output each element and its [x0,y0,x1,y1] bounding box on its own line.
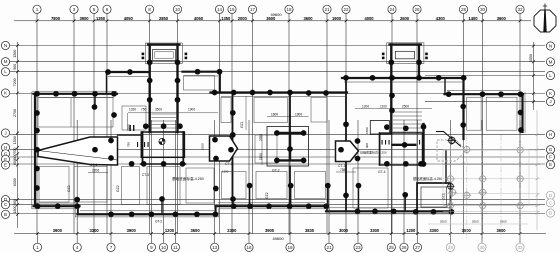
building foundation walls [34,45,524,215]
svg-text:GT-2: GT-2 [155,220,162,224]
svg-text:GT-2: GT-2 [272,169,280,173]
svg-text:28: 28 [448,245,454,250]
svg-text:F: F [549,155,552,160]
svg-text:8: 8 [148,7,151,12]
svg-text:49600: 49600 [270,12,282,17]
svg-text:33: 33 [517,245,523,250]
svg-text:6300: 6300 [13,178,17,186]
svg-text:3300: 3300 [90,228,100,233]
svg-text:H: H [4,145,7,150]
svg-text:J: J [549,99,551,104]
svg-text:24: 24 [389,7,395,12]
svg-text:3300: 3300 [370,228,380,233]
vertical axis grid lines [37,14,520,243]
svg-text:2350: 2350 [201,143,205,150]
svg-text:N: N [549,44,552,49]
svg-text:L: L [549,73,552,78]
svg-text:750: 750 [127,142,131,147]
svg-text:H: H [549,132,552,137]
svg-text:1330: 1330 [129,107,136,111]
svg-text:7: 7 [110,245,113,250]
interior room outlines [38,97,517,208]
svg-text:2850: 2850 [159,16,169,21]
component labels [67,121,468,200]
svg-text:3900: 3900 [496,228,506,233]
svg-text:GZ1: GZ1 [240,121,244,128]
svg-text:N: N [4,43,7,48]
svg-text:23: 23 [355,245,361,250]
svg-text:5: 5 [93,7,96,12]
svg-text:GZ2: GZ2 [442,193,446,200]
svg-text:10: 10 [161,245,167,250]
svg-text:25: 25 [389,245,395,250]
svg-text:28: 28 [461,7,467,12]
svg-text:G: G [549,147,553,152]
svg-text:3830: 3830 [305,228,315,233]
svg-text:M: M [549,59,553,64]
svg-text:1800: 1800 [13,206,17,214]
svg-text:GZ2: GZ2 [67,185,71,192]
svg-text:600: 600 [13,154,17,160]
svg-text:M: M [4,59,8,64]
right axis bubbles [546,42,554,217]
svg-text:49600: 49600 [272,236,284,241]
svg-text:758: 758 [340,168,346,172]
svg-text:32: 32 [517,7,523,12]
interior mini dimensions [88,96,432,173]
svg-text:1500: 1500 [529,54,533,62]
svg-text:18: 18 [286,7,292,12]
stair landing room with datum symbol [141,132,184,157]
svg-text:B: B [549,211,552,216]
extra black dots [212,90,524,167]
left axis bubbles [1,41,9,218]
footing outer edge lines [32,91,525,217]
svg-text:3900: 3900 [53,228,63,233]
svg-text:3: 3 [73,7,76,12]
right vertical dimension chain [529,42,538,230]
svg-text:2000: 2000 [238,16,248,21]
svg-text:1200: 1200 [362,105,369,109]
svg-text:1200: 1200 [406,228,416,233]
svg-text:E: E [4,163,7,168]
svg-text:4000: 4000 [364,16,374,21]
svg-text:2600: 2600 [400,16,410,21]
svg-text:22: 22 [343,7,349,12]
ramp CT-1 right [336,141,359,162]
svg-text:21: 21 [326,245,332,250]
svg-text:1150: 1150 [259,153,263,160]
top dimension line [14,12,531,22]
svg-text:1600: 1600 [271,112,278,116]
svg-text:700: 700 [13,148,17,154]
svg-text:GZ2: GZ2 [116,185,120,192]
extra room dividers [71,76,529,206]
svg-text:CT-1: CT-1 [225,162,232,166]
elevator core / pile cap GT-2 [267,116,309,166]
svg-text:2700: 2700 [13,109,17,117]
svg-text:CT-1: CT-1 [90,163,97,167]
svg-text:L: L [4,69,7,74]
svg-text:27: 27 [415,245,421,250]
svg-text:14: 14 [217,7,223,12]
svg-text:4050: 4050 [194,16,204,21]
svg-text:30: 30 [479,245,485,250]
svg-text:1500: 1500 [13,50,17,58]
svg-text:2206: 2206 [92,169,99,173]
svg-text:1900: 1900 [295,112,302,116]
faded pile markers [446,145,524,210]
bump side column marks [142,53,428,60]
faded right-bottom grid [428,135,540,238]
svg-text:7200: 7200 [13,78,17,86]
svg-text:基础底面标高-4.250: 基础底面标高-4.250 [413,176,442,181]
svg-text:6: 6 [106,7,109,12]
svg-text:3900: 3900 [127,228,137,233]
svg-text:J: J [4,131,6,136]
svg-text:15: 15 [229,7,235,12]
svg-text:750: 750 [141,107,147,111]
svg-text:1900: 1900 [188,107,195,111]
column dots [34,59,523,217]
svg-text:3900: 3900 [79,16,89,21]
stair bump 1 inner [152,50,177,129]
svg-text:16: 16 [246,245,252,250]
svg-text:CT-1: CT-1 [338,164,345,168]
svg-text:17: 17 [250,7,256,12]
svg-text:900: 900 [13,199,17,205]
top axis bubbles [33,5,524,13]
svg-text:GT-4: GT-4 [378,170,386,174]
ramp CT-1 far right (faded) [437,140,466,161]
svg-text:30: 30 [480,7,486,12]
wall inner face lines [36,76,520,211]
svg-text:1500: 1500 [13,136,17,144]
svg-text:10: 10 [175,7,181,12]
svg-text:B: B [4,212,7,217]
bottom axis bubbles [33,243,524,251]
svg-text:1900: 1900 [332,16,342,21]
ramp CT-1 middle [210,136,238,161]
svg-text:4300: 4300 [436,16,446,21]
svg-text:600: 600 [13,159,17,165]
witness dims and hatch marks [127,124,369,150]
svg-text:1: 1 [36,7,39,12]
stair bump 2 inner [393,51,422,132]
svg-text:3500: 3500 [155,107,162,111]
svg-text:3600: 3600 [190,228,200,233]
svg-text:3300: 3300 [429,228,439,233]
svg-text:GZ2: GZ2 [265,192,269,199]
svg-text:1500: 1500 [365,127,369,134]
bump footing outer edges [145,43,424,64]
svg-text:900: 900 [365,143,369,148]
left vertical dimension chain [13,42,19,228]
svg-text:基础底面标高-4.250: 基础底面标高-4.250 [172,176,204,181]
svg-text:26: 26 [401,245,407,250]
interior columns with stems [162,186,405,215]
svg-text:900: 900 [13,64,17,70]
north arrow symbol [534,4,556,33]
svg-text:1350: 1350 [221,16,231,21]
svg-text:19: 19 [287,245,293,250]
svg-text:3900: 3900 [265,228,275,233]
svg-text:7800: 7800 [51,16,61,21]
svg-text:1400: 1400 [468,16,478,21]
bottom dimension line [14,228,546,241]
svg-text:CT-3: CT-3 [142,173,149,177]
svg-text:3000: 3000 [339,228,349,233]
svg-text:4: 4 [76,245,79,250]
svg-text:4050: 4050 [124,16,134,21]
svg-text:2300: 2300 [227,228,237,233]
svg-text:13: 13 [212,245,218,250]
ramp CT-1 left [38,137,118,165]
svg-text:9: 9 [150,245,153,250]
svg-text:21: 21 [324,7,330,12]
svg-text:3000: 3000 [462,228,472,233]
svg-text:基础底面标高-4.250: 基础底面标高-4.250 [360,150,387,155]
svg-text:1150: 1150 [222,169,229,173]
svg-text:3000: 3000 [472,220,479,224]
svg-text:1350: 1350 [96,16,106,21]
svg-text:3600: 3600 [303,16,313,21]
svg-text:1200: 1200 [165,228,175,233]
pad footing squares [370,121,450,212]
svg-text:26: 26 [414,7,420,12]
svg-text:CT-1: CT-1 [461,162,468,166]
svg-text:2350: 2350 [259,134,263,141]
svg-text:3000: 3000 [440,220,447,224]
svg-text:3600: 3600 [497,16,507,21]
right wing chamfer + pile cap [436,132,461,147]
svg-text:3900: 3900 [500,220,507,224]
svg-text:11: 11 [173,245,178,250]
svg-text:E: E [549,162,552,167]
svg-text:1100: 1100 [380,105,387,109]
svg-text:2500: 2500 [402,105,409,109]
svg-text:1: 1 [36,245,39,250]
horizontal axis grid lines [10,46,545,214]
pile marker at room corner [447,182,455,190]
